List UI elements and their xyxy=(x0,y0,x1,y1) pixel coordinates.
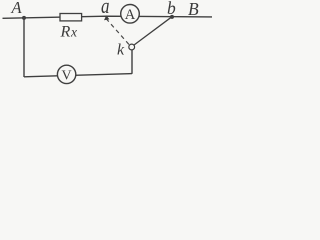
wire: left vertical branch xyxy=(23,18,25,77)
node b dot xyxy=(170,15,174,19)
node junction dot under A xyxy=(22,16,26,20)
resistor Rx body xyxy=(60,14,82,21)
svg-text:a: a xyxy=(101,0,110,18)
svg-text:B: B xyxy=(188,0,199,19)
switch k: contact arrowhead at node a xyxy=(104,15,109,20)
switch k: solid blade closed to node b xyxy=(134,17,172,45)
svg-text:R: R xyxy=(60,23,71,40)
svg-text:A: A xyxy=(125,7,136,23)
svg-text:b: b xyxy=(167,0,176,18)
svg-text:V: V xyxy=(62,68,72,83)
wire: top rail from A to B xyxy=(3,16,213,18)
switch k: pivot circle xyxy=(129,44,135,50)
voltmeter U2 circle xyxy=(57,65,75,83)
svg-text:k: k xyxy=(117,42,125,59)
svg-text:A: A xyxy=(11,0,23,17)
switch k: dashed blade alternative position toward contact a xyxy=(106,19,129,45)
wire: right vertical up to switch pivot xyxy=(131,49,133,74)
ammeter U1 circle xyxy=(121,5,140,24)
wire: bottom rail xyxy=(24,74,132,77)
svg-text:x: x xyxy=(70,24,77,39)
